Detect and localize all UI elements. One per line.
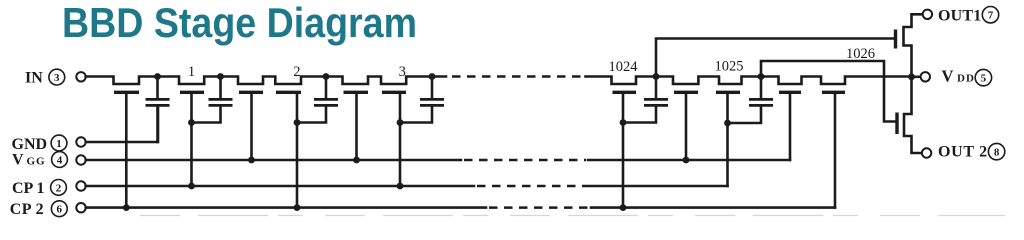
svg-text:3: 3: [54, 72, 60, 84]
svg-text:2: 2: [293, 64, 300, 80]
junction cap 1025 link on gate lead: [724, 120, 731, 127]
transistor 1024 gate (to CP2): [613, 91, 637, 94]
transistor input stage gate (to CP2): [114, 91, 139, 94]
terminal GND: [76, 137, 85, 146]
junction node input cap on rail: [154, 73, 161, 80]
transistor tetrode between 1024 and 1025 gate (to VGG): [674, 91, 698, 94]
pin number 2 circled: [51, 180, 67, 196]
capacitor stage 2: [325, 77, 328, 99]
faint scan artifact line bottom: [140, 215, 1005, 217]
wire cap 1024 bottom link to gate 1024: [623, 107, 656, 123]
wire cap 1 bottom link to gate 1: [192, 107, 221, 123]
svg-text:GG: GG: [27, 156, 46, 168]
wire CP1 bus solid right ending at gate 1025: [588, 185, 728, 188]
wire cap 2 bottom link to gate 2: [297, 107, 326, 123]
wire CP2 bus solid left: [86, 206, 486, 209]
junction node cap 1025 on rail: [758, 73, 765, 80]
wire cap 1025 bottom link to gate 1025: [728, 107, 762, 123]
wire signal rail dashed continuation: [452, 75, 585, 78]
junction node cap 1024 on rail: [653, 73, 660, 80]
terminal CP1: [76, 181, 85, 190]
terminal VGG: [76, 155, 85, 164]
wire signal rail left section with channels of input FET and FETs 1,2,3: [86, 77, 446, 85]
wire CP2 bus solid right ending at gate 1026: [591, 206, 835, 209]
svg-text:1024: 1024: [609, 59, 639, 75]
svg-text:V: V: [12, 152, 24, 169]
svg-text:1026: 1026: [846, 46, 875, 62]
junction node cap 2 on rail: [323, 73, 330, 80]
junction CP2 gate 1024: [620, 204, 627, 211]
svg-text:4: 4: [57, 155, 63, 167]
wire CP1 bus dashed middle: [477, 185, 587, 188]
junction CP2 input gate: [123, 204, 130, 211]
capacitor input stage (storage cap to GND): [156, 77, 159, 99]
svg-text:OUT1: OUT1: [938, 8, 981, 25]
wire node 1025 riser to OUT2 follower gate: [761, 61, 896, 122]
transistor 2 gate (to CP2): [276, 91, 301, 94]
transistor 1026 gate (to CP2): [822, 91, 845, 94]
junction node VDD: [908, 73, 915, 80]
terminal OUT2: [922, 148, 931, 157]
svg-text:1: 1: [56, 138, 62, 150]
wire VGG bus solid right rising to last tetrode gate: [588, 159, 790, 162]
transistor 1 gate (to CP1): [180, 91, 204, 94]
junction CP1 gate 3: [397, 183, 404, 190]
terminal VDD: [921, 72, 930, 81]
capacitor stage 3: [431, 77, 434, 99]
wire cap 3 bottom link to gate 3: [400, 107, 432, 123]
pin number 3 circled: [49, 69, 65, 85]
transistor tetrode between 1025 and 1026 gate (to VGG): [779, 91, 801, 94]
svg-text:2: 2: [56, 182, 62, 194]
transistor OUT1 source follower: [894, 30, 897, 49]
pin number 4 circled: [52, 152, 68, 168]
wire VGG bus dashed middle: [464, 159, 586, 162]
junction cap 1 link on gate lead: [188, 119, 195, 126]
svg-text:CP 2: CP 2: [10, 201, 44, 218]
svg-text:CP 1: CP 1: [12, 180, 44, 197]
svg-text:DD: DD: [957, 72, 975, 84]
pin number 6 circled: [51, 201, 67, 217]
transistor 1025 gate (to CP1): [716, 91, 740, 94]
junction VGG tetrode 2-3: [353, 157, 360, 164]
transistor tetrode between 2 and 3 gate (to VGG): [344, 91, 369, 94]
svg-text:7: 7: [988, 10, 994, 22]
junction node cap 3 on rail: [429, 73, 436, 80]
junction cap 3 link on gate lead: [397, 119, 404, 126]
svg-text:5: 5: [981, 73, 987, 85]
junction cap 1024 link on gate lead: [620, 119, 627, 126]
capacitor stage 1025: [760, 77, 763, 99]
svg-text:IN: IN: [25, 69, 43, 86]
svg-text:3: 3: [399, 64, 406, 80]
junction node cap 1 on rail: [217, 73, 224, 80]
svg-text:V: V: [942, 66, 954, 85]
junction CP2 gate 2: [294, 204, 301, 211]
junction cap 2 link on gate lead: [294, 119, 301, 126]
pin number 1 circled: [51, 135, 67, 151]
wire VGG bus solid left: [86, 159, 461, 162]
junction VGG tetrode 1024-1025: [683, 157, 690, 164]
svg-text:GND: GND: [12, 136, 48, 153]
wire VDD stub: [912, 76, 921, 79]
svg-text:BBD Stage Diagram: BBD Stage Diagram: [62, 0, 417, 46]
wire CP2 bus dashed middle: [489, 206, 590, 209]
ground bus wire to input cap: [86, 107, 158, 142]
svg-text:1025: 1025: [715, 59, 744, 75]
transistor tetrode between 1 and 2 gate (to VGG): [239, 91, 263, 94]
transistor OUT2 source follower: [895, 113, 898, 135]
terminal IN: [76, 72, 85, 81]
junction VGG tetrode 1-2: [248, 157, 255, 164]
capacitor stage 1024: [655, 77, 658, 99]
wire CP1 bus solid left: [86, 185, 474, 188]
svg-text:8: 8: [994, 147, 1000, 159]
svg-text:6: 6: [57, 204, 63, 216]
pin number 5 circled: [975, 69, 991, 85]
svg-text:OUT 2: OUT 2: [938, 143, 988, 160]
pin number 8 circled: [988, 143, 1004, 159]
terminal CP2: [76, 203, 85, 212]
capacitor stage 1: [219, 77, 222, 99]
transistor 3 gate (to CP1): [382, 91, 406, 94]
junction CP1 gate 1: [188, 183, 195, 190]
terminal OUT1: [923, 10, 932, 19]
wire signal rail right section with channels of FETs 1024,1025,1026: [586, 77, 912, 85]
pin number 7 circled: [982, 7, 998, 23]
wire node 1024 riser to OUT1 follower gate: [656, 39, 894, 77]
svg-text:1: 1: [188, 64, 195, 80]
